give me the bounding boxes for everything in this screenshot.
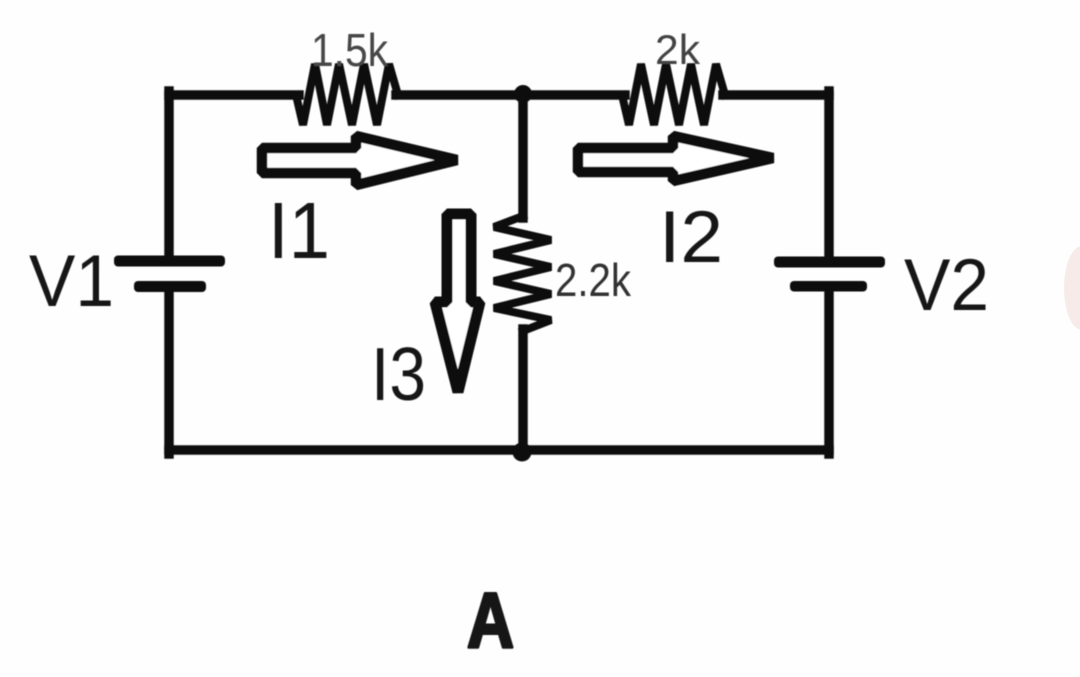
svg-text:2k: 2k: [655, 26, 701, 73]
current arrow I1 (block arrow pointing right): [262, 136, 457, 185]
wire: left branch upper (top rail down to V1): [164, 91, 174, 257]
battery V2 long plate (+): [774, 257, 885, 268]
battery V2 short plate (-): [790, 281, 867, 292]
wire: bottom rail: [169, 445, 829, 455]
resistor R3 2.2k (vertical zigzag): [494, 216, 551, 331]
resistor R1 1.5k (zigzag): [296, 64, 398, 125]
battery V1 short plate (-): [134, 281, 206, 292]
wire: left branch lower (V1 down to bottom rail): [164, 290, 174, 454]
wire: right branch upper (top rail down to V2): [824, 91, 834, 258]
wire: middle branch lower (R3 down to bottom node): [518, 329, 528, 452]
svg-text:V1: V1: [29, 241, 114, 322]
battery V1 long plate (+): [114, 256, 225, 267]
node: top junction dot: [514, 85, 532, 103]
svg-text:2.2k: 2.2k: [555, 254, 632, 306]
pink smudge right edge: [1064, 246, 1080, 330]
svg-text:V2: V2: [904, 245, 989, 326]
svg-text:I1: I1: [268, 186, 330, 275]
current arrow I2 (block arrow pointing right): [578, 136, 773, 181]
current arrow I3 (block arrow pointing down): [435, 214, 480, 392]
svg-text:I3: I3: [371, 332, 426, 416]
svg-text:I2: I2: [659, 197, 723, 278]
wire: right branch lower (V2 down to bottom rail): [824, 290, 834, 454]
node: bottom junction dot: [513, 443, 532, 462]
resistor R2 2k (zigzag): [622, 64, 725, 125]
wire: top rail right segment (R2 to V2 top): [723, 90, 829, 100]
svg-text:A: A: [467, 576, 514, 664]
wire: top rail left segment (V1 top to R1): [169, 90, 299, 100]
wire: middle branch upper (top node down to R3): [518, 95, 528, 218]
svg-text:1.5k: 1.5k: [311, 24, 389, 76]
wire: top rail middle segment (R1 to node, node to R2): [396, 90, 625, 100]
